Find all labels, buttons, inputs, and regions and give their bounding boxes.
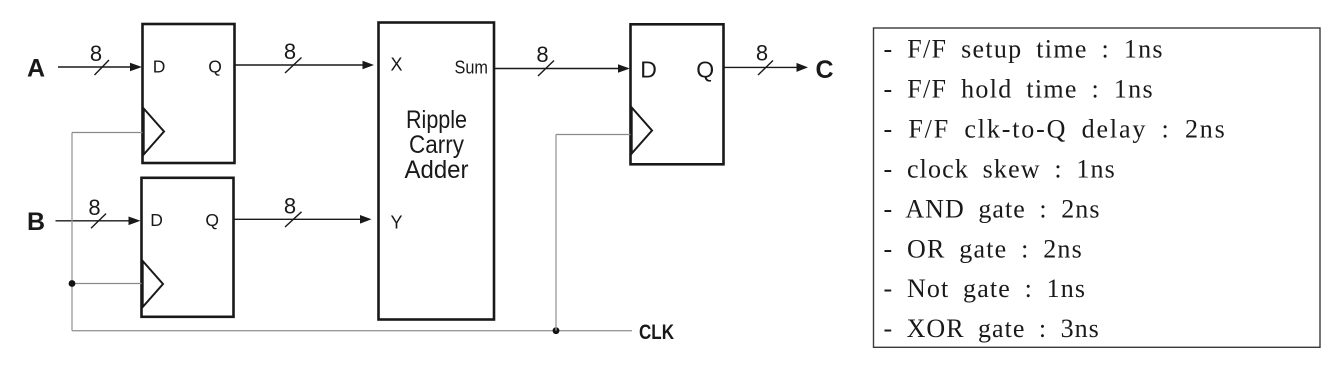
bus width slash (C bus) [758, 61, 773, 76]
wire CLK bottom run [72, 330, 632, 332]
clock input triangle (FF1) [144, 109, 164, 155]
svg-text:8: 8 [536, 42, 548, 67]
bus width slash (Sum bus) [538, 61, 554, 77]
wire CLK vertical left branch [71, 133, 73, 331]
wire B to FF2 D [56, 217, 141, 226]
timing parameters text [884, 35, 1227, 343]
flip-flop FF3 body [631, 24, 724, 164]
svg-text:X: X [391, 55, 403, 75]
bus width slash (A bus) [95, 60, 110, 75]
svg-text:D: D [640, 56, 657, 82]
ripple carry adder U1 body [379, 23, 495, 320]
wire FF1 Q to adder X [235, 61, 375, 70]
svg-text:8: 8 [90, 41, 102, 66]
svg-text:D: D [150, 210, 163, 230]
clock input triangle (FF3) [632, 108, 652, 154]
wire A to FF1 D [58, 63, 142, 72]
svg-text:A: A [27, 54, 45, 82]
bus width slash (FF1-adder bus) [285, 58, 302, 74]
svg-text:8: 8 [88, 195, 100, 220]
svg-text:8: 8 [284, 194, 296, 219]
wire FF2 Q to adder Y [234, 215, 372, 224]
svg-text:8: 8 [756, 41, 768, 66]
svg-text:Adder: Adder [405, 156, 469, 184]
svg-text:- F/F setup time : 1ns: - F/F setup time : 1ns [884, 35, 1164, 64]
flip-flop FF2 body [142, 178, 234, 317]
clock input triangle (FF2) [143, 261, 163, 307]
svg-text:8: 8 [284, 39, 296, 64]
wire CLK to FF2 clock [72, 283, 142, 285]
wire CLK to FF1 clock [72, 132, 143, 134]
svg-text:D: D [153, 56, 166, 76]
svg-text:C: C [815, 56, 833, 84]
bus width slash (FF2-adder bus) [285, 212, 302, 227]
svg-text:- F/F hold time : 1ns: - F/F hold time : 1ns [884, 75, 1154, 104]
svg-text:- Not gate : 1ns: - Not gate : 1ns [884, 274, 1087, 303]
wire CLK to FF3 clock [556, 134, 631, 136]
svg-text:- OR gate : 2ns: - OR gate : 2ns [884, 234, 1083, 263]
svg-text:Y: Y [391, 213, 403, 233]
adder title text [405, 106, 469, 184]
svg-text:B: B [27, 208, 45, 236]
svg-text:Q: Q [696, 56, 714, 82]
timing parameters box [874, 28, 1321, 347]
junction dot (left CLK branch) [69, 280, 76, 287]
wire adder Sum to FF3 D [494, 64, 630, 73]
svg-text:Q: Q [205, 210, 219, 230]
svg-text:CLK: CLK [639, 321, 674, 344]
svg-text:Sum: Sum [455, 58, 489, 78]
svg-text:- AND gate : 2ns: - AND gate : 2ns [884, 194, 1101, 223]
svg-text:- clock skew : 1ns: - clock skew : 1ns [884, 154, 1116, 183]
svg-text:- XOR gate : 3ns: - XOR gate : 3ns [884, 314, 1100, 343]
wire CLK vertical right branch [555, 135, 557, 331]
junction dot (right CLK branch) [553, 327, 560, 334]
svg-text:- F/F clk-to-Q delay : 2ns: - F/F clk-to-Q delay : 2ns [884, 115, 1227, 144]
flip-flop FF1 body [143, 24, 235, 163]
wire FF3 Q to output C [724, 63, 809, 72]
svg-text:Ripple: Ripple [406, 106, 467, 134]
svg-text:Carry: Carry [409, 131, 464, 159]
bus width slash (B bus) [91, 214, 106, 229]
svg-text:Q: Q [208, 56, 222, 76]
